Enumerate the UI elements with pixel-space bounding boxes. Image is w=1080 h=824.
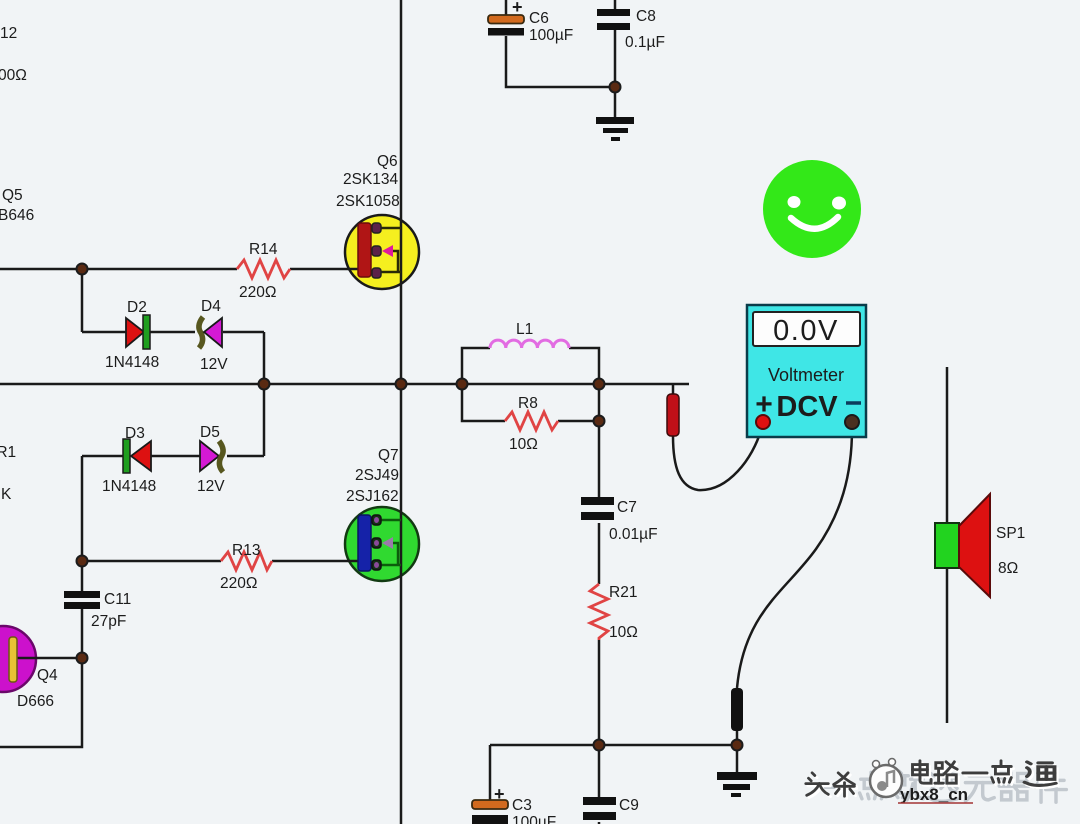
svg-text:C7: C7 (617, 499, 637, 516)
svg-text:2SJ162: 2SJ162 (346, 488, 399, 505)
svg-text:D4: D4 (201, 298, 221, 315)
svg-text:DCV: DCV (776, 391, 838, 423)
svg-text:D3: D3 (125, 425, 145, 442)
svg-text:12V: 12V (197, 478, 225, 495)
svg-text:D666: D666 (17, 693, 54, 710)
svg-text:+: + (512, 0, 523, 17)
svg-text:2SK1058: 2SK1058 (336, 193, 400, 210)
svg-text:K: K (1, 486, 12, 503)
svg-text:L1: L1 (516, 321, 533, 338)
svg-text:B646: B646 (0, 207, 34, 224)
svg-text:Q5: Q5 (2, 187, 23, 204)
svg-text:1N4148: 1N4148 (102, 478, 156, 495)
svg-text:R14: R14 (249, 241, 278, 258)
svg-text:12V: 12V (200, 356, 228, 373)
svg-text:Q7: Q7 (378, 447, 399, 464)
svg-text:+: + (494, 784, 505, 804)
svg-text:220Ω: 220Ω (239, 284, 276, 301)
svg-text:0.01µF: 0.01µF (609, 526, 658, 543)
svg-text:12: 12 (0, 25, 17, 42)
svg-text:R8: R8 (518, 395, 538, 412)
svg-text:C6: C6 (529, 10, 549, 27)
svg-text:D5: D5 (200, 424, 220, 441)
svg-text:8Ω: 8Ω (998, 560, 1018, 577)
svg-text:VR1: VR1 (0, 444, 16, 461)
svg-text:10Ω: 10Ω (509, 436, 538, 453)
svg-text:Voltmeter: Voltmeter (768, 365, 844, 385)
svg-text:SP1: SP1 (996, 525, 1025, 542)
svg-text:Q6: Q6 (377, 153, 398, 170)
svg-text:100µF: 100µF (512, 814, 556, 824)
svg-text:C3: C3 (512, 797, 532, 814)
svg-text:1N4148: 1N4148 (105, 354, 159, 371)
svg-text:220Ω: 220Ω (220, 575, 257, 592)
svg-text:0.0V: 0.0V (773, 315, 839, 347)
svg-text:ybx8_cn: ybx8_cn (900, 785, 968, 804)
svg-text:Q4: Q4 (37, 667, 58, 684)
svg-text:C11: C11 (104, 591, 131, 608)
svg-text:0.1µF: 0.1µF (625, 34, 665, 51)
svg-text:C9: C9 (619, 797, 639, 814)
svg-text:2SJ49: 2SJ49 (355, 467, 399, 484)
svg-text:D2: D2 (127, 299, 147, 316)
svg-text:R21: R21 (609, 584, 637, 601)
svg-text:00Ω: 00Ω (0, 67, 27, 84)
svg-text:C8: C8 (636, 8, 656, 25)
svg-text:27pF: 27pF (91, 613, 126, 630)
svg-text:R13: R13 (232, 542, 260, 559)
svg-text:10Ω: 10Ω (609, 624, 638, 641)
svg-text:2SK134: 2SK134 (343, 171, 399, 188)
svg-text:100µF: 100µF (529, 27, 573, 44)
